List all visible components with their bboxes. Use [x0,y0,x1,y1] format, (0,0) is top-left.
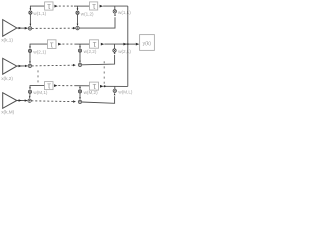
wire row1 delay line to right corner [103,5,128,7]
dashed wire B11 to B12 [32,27,73,29]
svg-text:τ: τ [47,81,51,91]
wire A1 output to summer B11 [17,27,28,29]
wire A2 output to summer B21 [17,65,28,67]
wire W21 to B21 [29,53,31,62]
multiplier WCM [113,89,116,92]
stub WC1 to delay line [114,6,116,10]
summer B11 [28,27,31,30]
arrow into multiplier WM1 [29,87,31,90]
arrow out of TM1 [54,84,58,87]
arrow out of T12 [100,5,104,8]
svg-text:τ: τ [47,1,51,11]
svg-text:w(2,2): w(2,2) [84,49,97,54]
arrow out of T21 [58,43,62,46]
tap wire down at x=77.5 [77,6,79,9]
wire junction to output box [128,43,136,45]
dashed wire rowM delay line [58,85,74,87]
svg-text:x(k,1): x(k,1) [1,37,13,42]
summer B22 [78,63,81,66]
amplifier A1 (antenna input 1) [3,20,17,37]
svg-text:y(k): y(k) [143,41,152,47]
svg-text:w(2,L): w(2,L) [118,49,131,54]
junction node [127,43,129,45]
summer BM1 [28,99,31,102]
svg-text:w(M,1): w(M,1) [33,90,48,95]
right collector bus wire [127,6,129,86]
arrow into multiplier A11 [30,8,32,11]
tap wire down at x=80 [79,86,81,87]
wire WM2 to BM2 [79,93,81,98]
svg-text:w(1,L): w(1,L) [118,10,131,15]
stub WC2 to delay line [114,44,116,49]
junction node on rowM delay line [104,85,106,87]
dashed wire row2 delay line [62,43,74,45]
wire row2 delay line to T22 [75,43,90,45]
arrow out of TM2 [100,85,104,88]
dashed wire row1 delay line [59,5,74,7]
multiplier WM1 [28,90,31,93]
wire B12 to corner up [79,17,115,28]
delay box T12 [90,2,98,10]
wire B22 to corner up [82,55,115,65]
arrow out of T22 [101,43,105,46]
svg-text:w(2,1): w(2,1) [33,49,46,54]
delay box T22 [90,40,99,48]
svg-text:τ: τ [93,81,97,91]
delay box T21 [48,40,57,49]
multiplier W12 [76,11,79,14]
wire row1 delay line start corner [30,6,44,10]
wire row1 delay line to T12 [74,5,89,7]
wire WM1 to BM1 [29,93,31,96]
vertical ellipsis between row 2 and row M (right) [103,61,105,83]
multiplier W22 [78,49,81,52]
wire row2 delay line start corner [30,44,47,48]
multiplier W21 [28,49,31,52]
delay box TM1 [45,82,54,90]
multiplier WM2 [78,90,81,93]
svg-text:x(k,M): x(k,M) [1,110,14,115]
svg-text:w(M,L): w(M,L) [118,90,133,95]
arrow out of T11 [54,5,58,8]
svg-text:τ: τ [93,39,97,49]
wire BM2 to corner up [82,96,115,103]
wire W12 to B12 [77,14,79,23]
delay box TM2 [90,82,99,90]
dashed wire BM1 to BM2 [31,100,73,103]
svg-text:w(1,2): w(1,2) [81,11,94,16]
svg-text:x(k,2): x(k,2) [1,76,13,81]
multiplier WC2 [113,49,116,52]
amplifier A2 (antenna input 2) [3,58,17,74]
svg-text:w(1,1): w(1,1) [33,11,46,16]
svg-text:τ: τ [50,39,54,49]
summer B21 [28,64,31,67]
summer B12 [76,26,79,29]
wire row2 delay line to junction [104,43,128,45]
delay box T11 [45,2,53,10]
wire W11 to B11 [29,14,31,24]
arrow into multiplier W21 [29,46,31,49]
summer BM2 [78,100,81,103]
amplifier AM (antenna input M) [3,93,17,109]
dashed wire B21 to B22 [32,64,73,67]
stub WCM to delay line [114,86,116,89]
vertical ellipsis between row 2 and row M (left) [37,70,39,82]
multiplier WC1 [113,10,116,13]
multiplier W11 [29,11,32,14]
wire AM output to summer BM1 [17,100,27,102]
tap wire down at x=80 [79,44,81,46]
output box y(k) [140,35,155,51]
wire rowM delay line start corner [30,86,44,88]
wire W22 to B22 [79,52,81,61]
svg-text:τ: τ [92,1,96,11]
wire rowM delay line to TM2 [75,85,90,87]
wire rowM delay line to right corner [104,85,128,87]
